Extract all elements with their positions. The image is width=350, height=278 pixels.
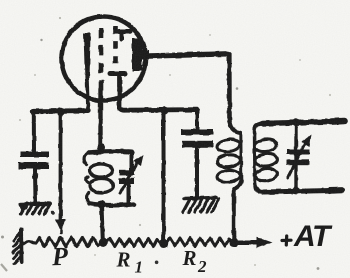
- wire: C3 to ground: [195, 148, 199, 197]
- capacitor C3 plates: [181, 129, 213, 135]
- wire: tank bottom: [90, 204, 135, 206]
- wire: left horizontal rail: [34, 108, 89, 114]
- wire: cathode lead down and right rail: [120, 75, 198, 110]
- wire: down to transformer primary: [227, 54, 232, 121]
- ground G2 (hatched): [184, 198, 217, 199]
- grid-2 top connection bar: [119, 29, 130, 34]
- wire: filament lead down to left rail: [87, 80, 88, 109]
- wire: primary bottom down to +AT node: [232, 189, 236, 240]
- node F: bottom of C4 branch: [292, 186, 300, 194]
- node A: junction on left rail: [56, 107, 65, 116]
- wire: tank top: [89, 151, 132, 152]
- variable capacitor C4 plates: [287, 150, 310, 155]
- wire: secondary tank bottom rail: [264, 190, 344, 192]
- variable capacitor C2 (tank): [130, 152, 134, 170]
- node I: +AT junction: [230, 238, 239, 247]
- wire: down to capacitor C1: [32, 112, 36, 152]
- coil L1 (tank coil, two loops): [84, 153, 89, 165]
- resistor R2 (zigzag): [166, 238, 232, 246]
- wire: C1 to ground: [33, 170, 38, 202]
- wire: secondary tank top rail: [262, 121, 345, 123]
- wire: tank bottom down to potentiometer end: [102, 205, 103, 241]
- ground G1 (hatched): [21, 202, 51, 207]
- node C: tank bottom junction: [98, 201, 106, 209]
- arrow of variable capacitor C2: [120, 161, 138, 194]
- transformer secondary L3 (loops): [254, 124, 262, 134]
- wire: down to capacitor C3: [195, 110, 199, 129]
- arrow to +AT supply: [238, 241, 257, 245]
- wire: grid lead down to tank: [98, 89, 102, 148]
- node H: R1 / R2 junction: [159, 239, 168, 248]
- vacuum tube V1 envelope: [62, 17, 146, 101]
- wire: down to potentiometer wiper (arrow): [59, 113, 63, 220]
- resistor R1 (zigzag): [104, 239, 161, 247]
- control grid (dashed electrode): [99, 28, 104, 90]
- node D: junction on cathode rail: [161, 107, 169, 115]
- potentiometer P (zigzag): [22, 241, 37, 244]
- node E: top of C4 branch: [292, 119, 300, 127]
- capacitor C1 plates: [20, 152, 49, 158]
- node G: pot / R1 junction: [99, 238, 108, 247]
- anode plate: [132, 38, 142, 71]
- wire: long vertical from node D to bottom rail: [162, 112, 166, 240]
- wire: C4 branch vertical: [294, 123, 297, 190]
- arrow of variable capacitor C4: [288, 143, 305, 178]
- node B: tank top junction: [97, 144, 105, 152]
- label +AT plus sign: [282, 236, 291, 245]
- transformer primary L2 (loops): [230, 120, 240, 133]
- wire: anode lead to the right: [149, 54, 228, 56]
- chassis wall for potentiometer (hatched): [19, 230, 24, 263]
- cathode bottom T-bar inside tube: [110, 71, 125, 76]
- second grid (dashed electrode): [113, 26, 118, 64]
- filament/cathode bar inside tube: [84, 33, 91, 81]
